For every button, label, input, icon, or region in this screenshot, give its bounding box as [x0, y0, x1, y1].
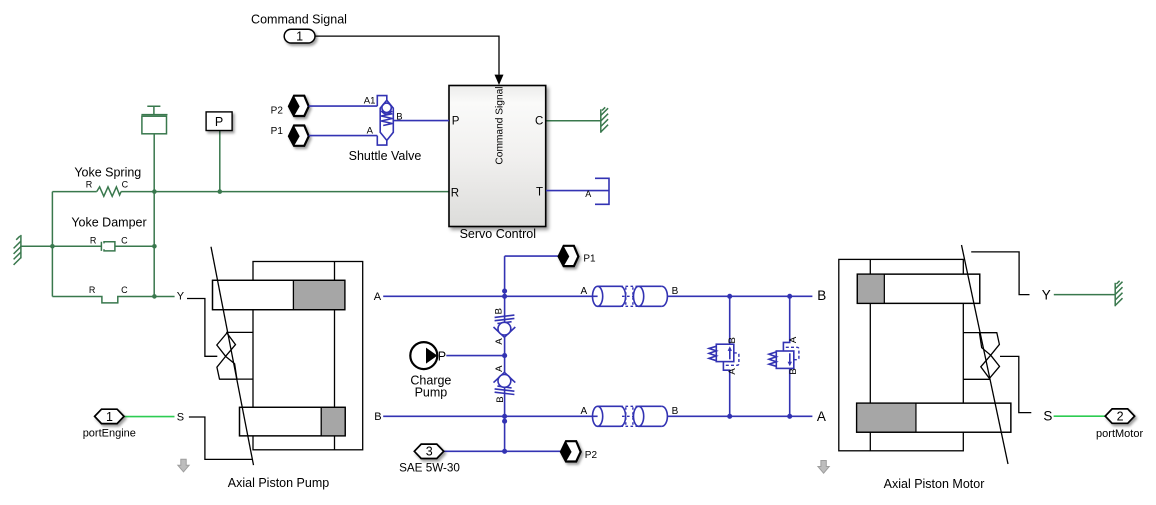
svg-text:R: R	[451, 187, 459, 199]
svg-text:P: P	[452, 116, 460, 128]
svg-text:Command Signal: Command Signal	[251, 12, 347, 26]
svg-text:SAE 5W-30: SAE 5W-30	[399, 461, 460, 474]
svg-text:Yoke Spring: Yoke Spring	[74, 166, 141, 180]
svg-text:Axial Piston Pump: Axial Piston Pump	[228, 476, 329, 490]
svg-text:Yoke Damper: Yoke Damper	[71, 216, 146, 230]
svg-text:T: T	[536, 187, 543, 199]
svg-text:Pump: Pump	[415, 386, 448, 400]
svg-text:2: 2	[1117, 410, 1124, 424]
svg-text:R: R	[86, 179, 93, 189]
svg-text:B: B	[396, 112, 402, 123]
svg-text:B: B	[672, 406, 679, 417]
svg-text:A: A	[727, 368, 738, 375]
svg-text:C: C	[535, 115, 543, 127]
svg-text:Y: Y	[1042, 287, 1051, 302]
svg-text:A: A	[817, 409, 826, 424]
svg-text:P2: P2	[271, 106, 284, 117]
svg-text:A: A	[367, 126, 374, 137]
svg-text:P2: P2	[585, 450, 598, 461]
svg-text:1: 1	[106, 410, 113, 424]
svg-text:B: B	[494, 308, 505, 314]
svg-text:S: S	[177, 412, 184, 424]
svg-text:R: R	[89, 285, 96, 295]
svg-text:portMotor: portMotor	[1096, 428, 1143, 440]
svg-text:A: A	[788, 336, 799, 343]
svg-text:1: 1	[296, 30, 303, 44]
svg-text:A: A	[585, 189, 591, 199]
svg-text:B: B	[817, 288, 826, 303]
svg-text:A1: A1	[364, 96, 376, 107]
svg-text:B: B	[788, 368, 799, 374]
svg-text:A: A	[581, 406, 588, 417]
svg-text:S: S	[1043, 409, 1052, 424]
svg-text:Y: Y	[177, 290, 185, 302]
svg-text:C: C	[122, 179, 129, 189]
svg-text:A: A	[374, 291, 382, 303]
svg-text:Servo Control: Servo Control	[460, 227, 536, 241]
svg-text:C: C	[121, 285, 128, 295]
svg-text:A: A	[494, 338, 505, 345]
svg-text:Command Signal: Command Signal	[495, 86, 506, 164]
svg-text:P1: P1	[271, 126, 284, 137]
svg-text:Axial Piston Motor: Axial Piston Motor	[884, 477, 985, 491]
svg-text:P: P	[438, 349, 446, 363]
svg-text:portEngine: portEngine	[83, 428, 136, 440]
svg-text:P1: P1	[583, 253, 596, 264]
svg-text:R: R	[90, 236, 97, 246]
svg-text:B: B	[672, 286, 679, 297]
svg-text:Shuttle Valve: Shuttle Valve	[349, 149, 422, 163]
svg-text:B: B	[727, 337, 738, 343]
svg-text:C: C	[121, 236, 128, 246]
svg-text:B: B	[374, 411, 381, 423]
svg-text:P: P	[215, 115, 223, 129]
svg-text:3: 3	[426, 445, 433, 459]
svg-text:A: A	[581, 286, 588, 297]
svg-text:B: B	[495, 396, 506, 402]
svg-text:A: A	[494, 365, 505, 372]
